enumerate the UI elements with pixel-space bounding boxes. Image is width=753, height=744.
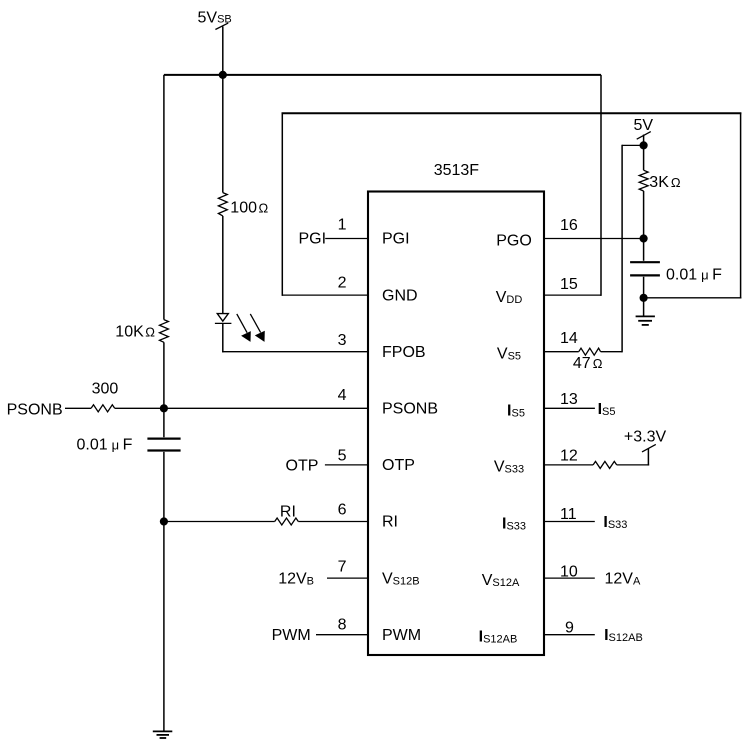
resistor 100 (218, 193, 227, 216)
ground right (636, 315, 655, 317)
ground left (153, 730, 173, 732)
node junction cap ground (640, 294, 648, 302)
wire node to ground (643, 298, 645, 316)
light arrow 2 (250, 314, 260, 333)
svg-text:PSONB: PSONB (7, 401, 63, 418)
wire 300 to pin4 (115, 407, 368, 409)
svg-text:12VB: 12VB (278, 571, 314, 588)
svg-text:OTP: OTP (286, 457, 319, 474)
wire PGO node to cap (643, 239, 645, 261)
node junction PSONB (160, 404, 168, 412)
pin 10 wire VS12A (544, 577, 595, 579)
svg-text:9: 9 (565, 619, 574, 636)
svg-text:PWM: PWM (382, 627, 421, 644)
pin 5 wire (325, 464, 368, 466)
svg-text:0.01μF: 0.01μF (77, 437, 133, 454)
svg-text:IS12AB: IS12AB (604, 627, 643, 644)
svg-text:3: 3 (338, 332, 347, 349)
svg-text:VDD: VDD (496, 289, 523, 306)
pin 16 wire PGO (544, 238, 644, 240)
svg-text:10: 10 (560, 563, 578, 580)
svg-text:8: 8 (338, 617, 347, 634)
svg-text:PWM: PWM (272, 627, 311, 644)
svg-text:+3.3V: +3.3V (624, 428, 667, 445)
wire PSONB net (65, 407, 91, 409)
capacitor 0.01uF left (147, 438, 180, 440)
wire 3K to PGO node (643, 191, 645, 239)
svg-text:PGO: PGO (496, 233, 532, 250)
wire 47 to riser (601, 351, 623, 353)
svg-text:4: 4 (338, 387, 347, 404)
svg-text:PGI: PGI (382, 231, 410, 248)
svg-text:VS5: VS5 (497, 346, 521, 363)
node junction 5V (640, 141, 648, 149)
svg-text:3513F: 3513F (434, 162, 480, 179)
svg-text:2: 2 (338, 275, 347, 292)
capacitor 0.01uF right (630, 261, 660, 263)
wire 5VSB drop (222, 27, 224, 75)
svg-text:IS33: IS33 (502, 516, 526, 533)
resistor 10K (160, 320, 169, 343)
svg-text:14: 14 (560, 330, 578, 347)
svg-text:IS5: IS5 (598, 401, 616, 418)
wire to +3.3V riser (617, 464, 649, 466)
svg-text:12VA: 12VA (605, 571, 641, 588)
svg-text:13: 13 (560, 391, 578, 408)
svg-text:IS5: IS5 (507, 402, 525, 419)
pin 14 wire VS5 (544, 351, 579, 353)
svg-text:16: 16 (560, 217, 578, 234)
wire 5V to 3K (643, 145, 645, 170)
wire left rail upper (163, 75, 165, 320)
wire 47 riser (621, 145, 623, 353)
svg-text:PGI: PGI (299, 231, 327, 248)
wire 100ohm branch upper (222, 75, 224, 193)
svg-text:IS12AB: IS12AB (479, 629, 518, 646)
pin 11 wire IS33 (544, 521, 595, 523)
svg-text:VS33: VS33 (494, 458, 524, 475)
power tick 3.3V (642, 444, 656, 452)
pin 13 wire IS5 (544, 407, 595, 409)
node junction RI (160, 517, 168, 525)
light arrow 1 (237, 314, 247, 333)
svg-text:10KΩ: 10KΩ (115, 323, 155, 340)
pin 12 wire VS33 (544, 464, 593, 466)
svg-text:GND: GND (382, 287, 418, 304)
svg-text:RI: RI (382, 514, 398, 531)
resistor 3K (639, 170, 648, 191)
svg-text:12: 12 (560, 447, 578, 464)
svg-text:47Ω: 47Ω (573, 355, 603, 372)
photodiode D1 (217, 314, 228, 322)
svg-text:0.01μF: 0.01μF (666, 266, 722, 283)
wire top rail (164, 74, 601, 76)
svg-text:7: 7 (338, 559, 347, 576)
pin 15 wire VDD (544, 294, 601, 296)
svg-text:1: 1 (338, 217, 347, 234)
wire 100ohm to LED (222, 216, 224, 314)
IC U1 3513F box (368, 192, 544, 656)
svg-text:OTP: OTP (382, 457, 415, 474)
wire left rail mid (163, 342, 165, 437)
power tick 5VSB (215, 23, 228, 29)
svg-text:6: 6 (338, 502, 347, 519)
svg-text:300: 300 (92, 381, 119, 398)
svg-text:100Ω: 100Ω (230, 199, 268, 216)
power tick 5V (637, 132, 651, 140)
resistor VS33 (593, 461, 617, 468)
svg-text:VS12A: VS12A (482, 572, 520, 589)
pin 1 wire (325, 238, 368, 240)
pin 7 wire (327, 577, 368, 579)
node junction 5VSB rail (219, 71, 227, 79)
svg-text:IS33: IS33 (603, 514, 627, 531)
pin 8 wire (316, 634, 368, 636)
wire RI to pin6 (298, 521, 368, 523)
wire LED to pin3 (222, 323, 224, 352)
node junction PGO (640, 234, 648, 242)
resistor 47 (579, 348, 601, 355)
wire riser to 5V node (622, 144, 644, 146)
wire RI net (164, 521, 275, 523)
svg-text:15: 15 (560, 276, 578, 293)
wire cap to ground node (643, 277, 645, 298)
resistor RI (275, 518, 299, 525)
svg-text:11: 11 (560, 506, 577, 523)
svg-text:PSONB: PSONB (382, 401, 438, 418)
wire GND loop (282, 294, 368, 296)
resistor 300 (91, 405, 115, 412)
svg-text:FPOB: FPOB (382, 344, 426, 361)
svg-text:3KΩ: 3KΩ (649, 174, 681, 191)
wire VDD riser (600, 75, 602, 296)
wire left rail lower (163, 452, 165, 732)
pin 9 wire IS12AB (544, 634, 595, 636)
svg-text:VS12B: VS12B (382, 570, 420, 587)
wire 5V drop (643, 135, 645, 146)
svg-text:RI: RI (280, 503, 296, 520)
svg-text:5: 5 (338, 448, 347, 465)
